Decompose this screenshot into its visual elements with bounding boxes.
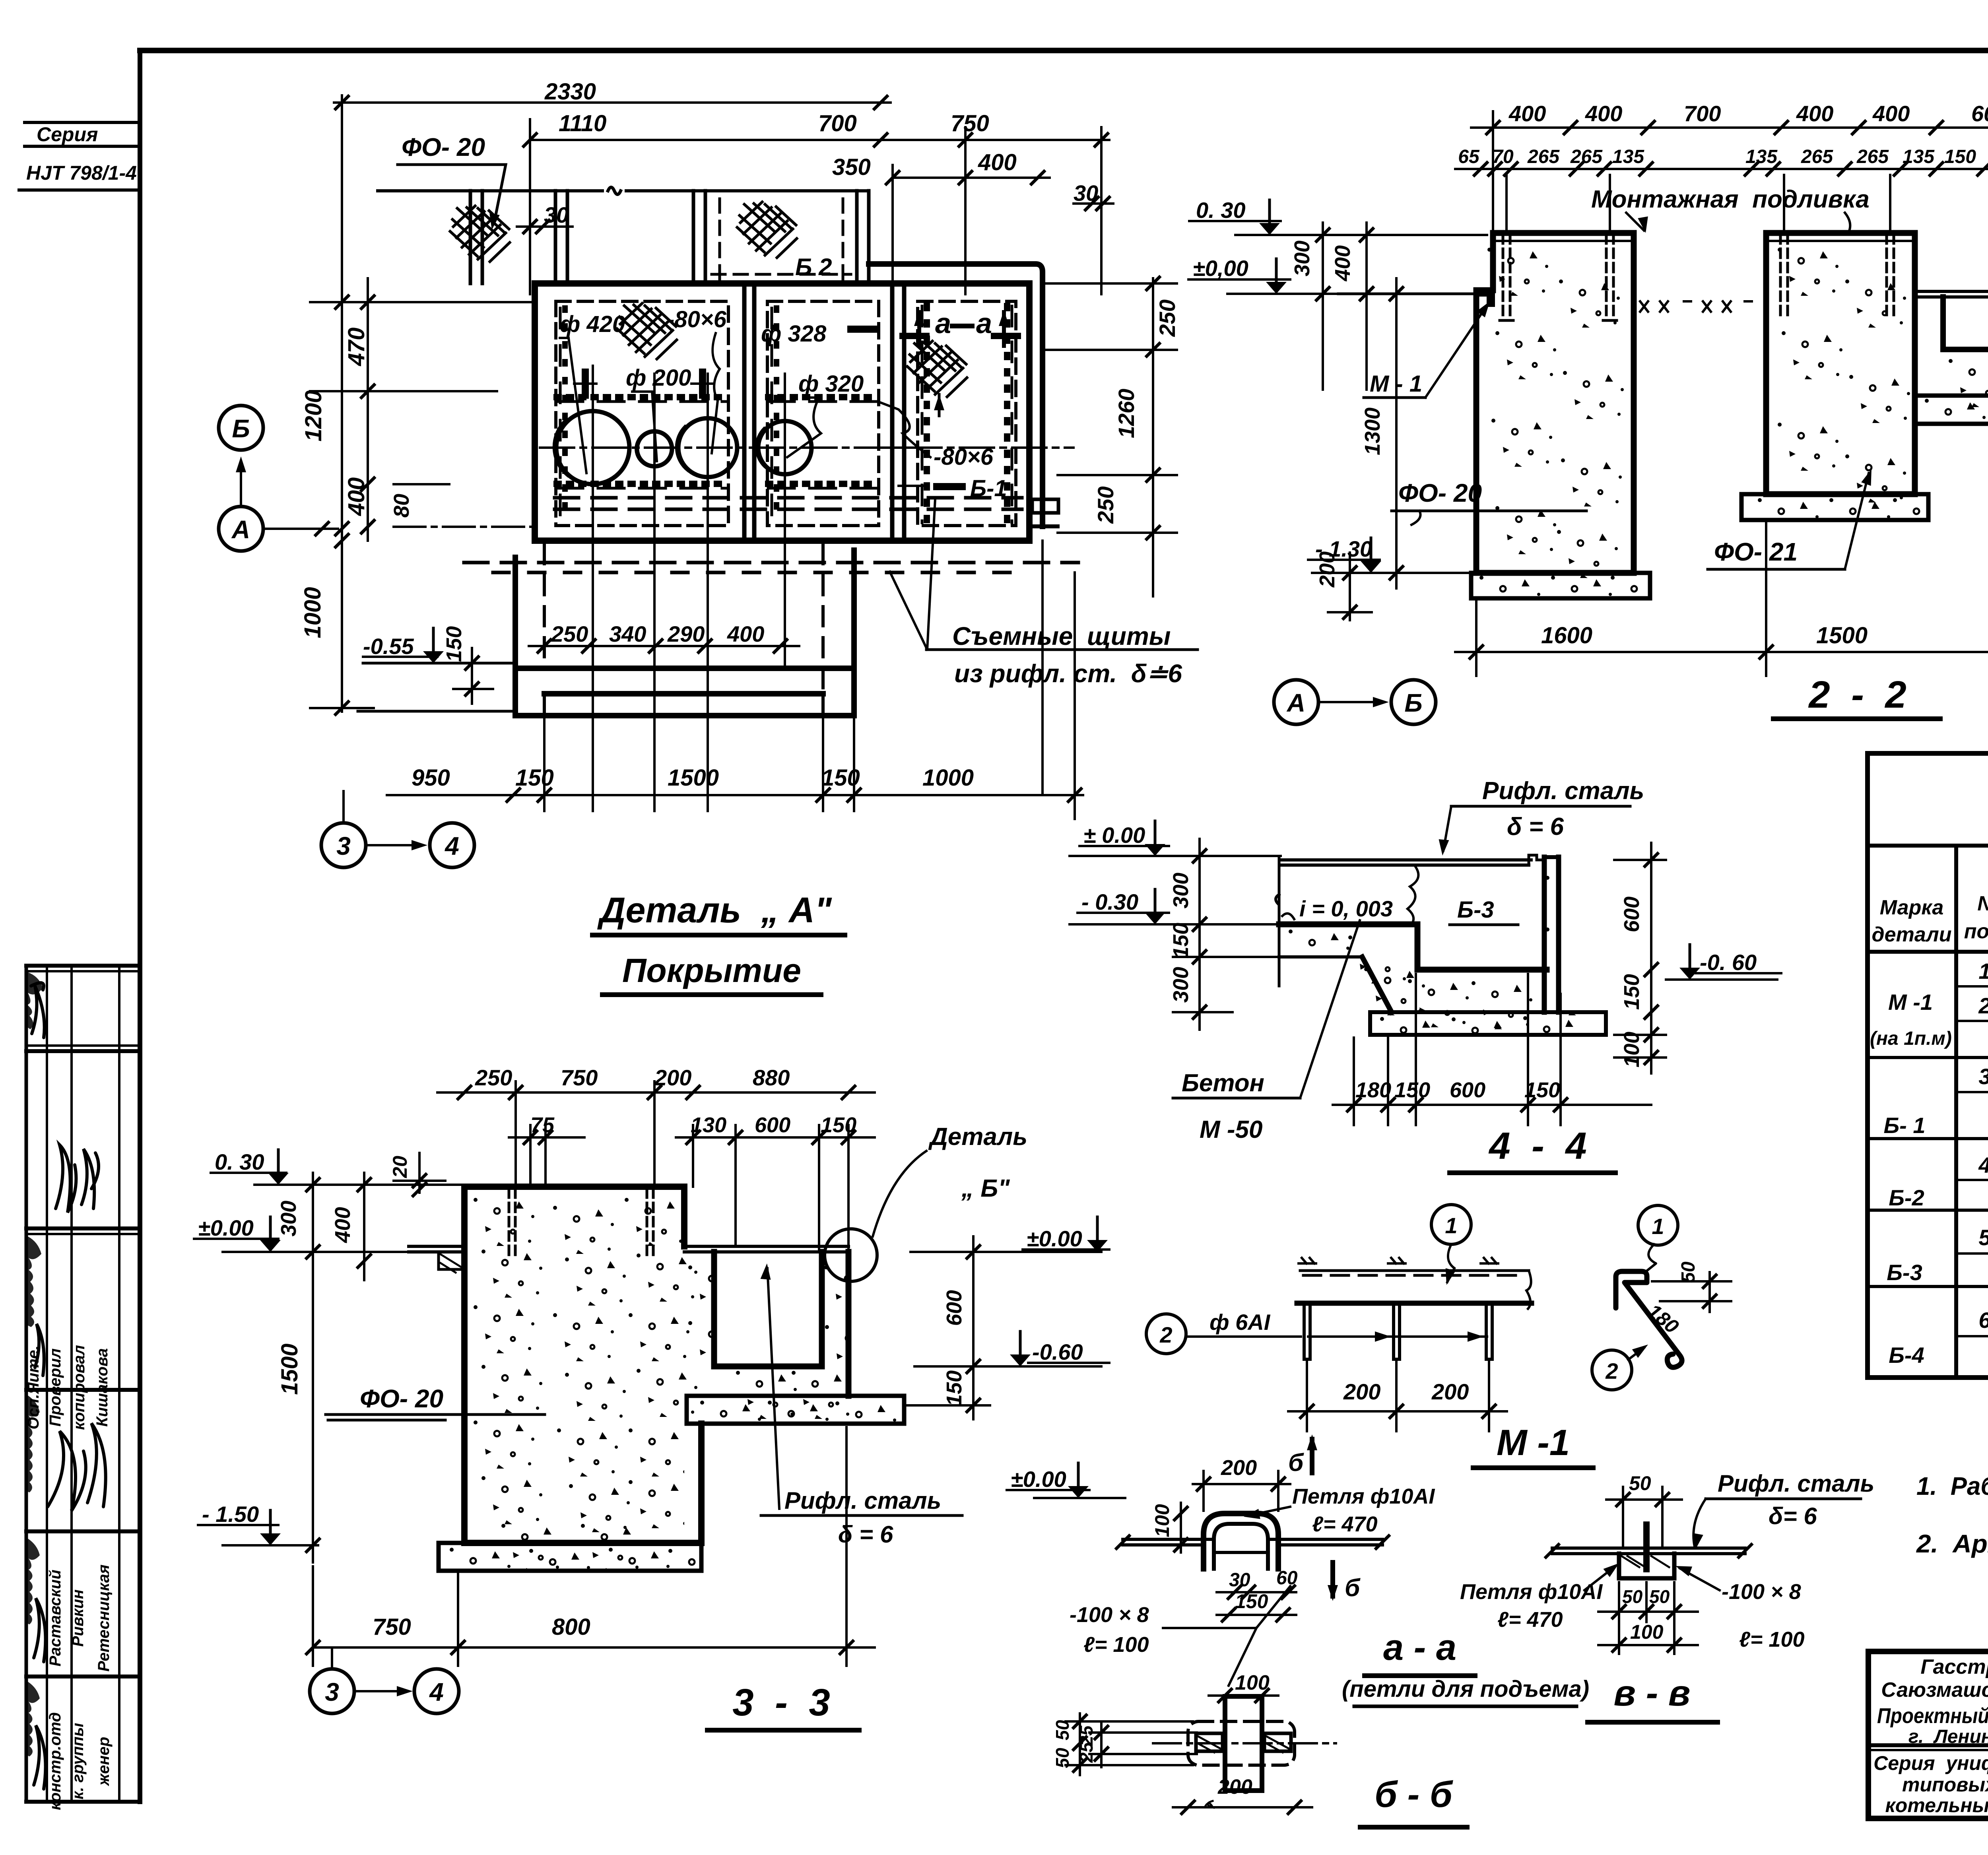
svg-text:1260: 1260	[1114, 389, 1139, 439]
svg-text:i = 0, 003: i = 0, 003	[1299, 896, 1393, 921]
svg-text:±0,00: ±0,00	[1193, 256, 1248, 281]
svg-text:НЈТ 798/1-4: НЈТ 798/1-4	[26, 162, 137, 184]
section cut dashed verticals	[544, 545, 823, 694]
svg-text:-100 × 8: -100 × 8	[1722, 1580, 1801, 1604]
svg-text:150: 150	[1524, 1078, 1560, 1102]
svg-text:женер: женер	[95, 1737, 113, 1787]
svg-text:880: 880	[753, 1065, 790, 1090]
svg-text:150: 150	[942, 1370, 966, 1406]
svg-text:150: 150	[821, 765, 860, 791]
2-2 left foundation anchor bolts	[1503, 235, 1613, 320]
svg-text:50: 50	[1629, 1472, 1651, 1494]
M-1 callout circle 1	[1431, 1205, 1471, 1286]
svg-text:Серия унифицированных: Серия унифицированных	[1873, 1752, 1988, 1774]
title 3-3	[707, 1681, 859, 1730]
4-4 left vertical chain 300 150 300	[1169, 839, 1279, 1030]
svg-text:200: 200	[1217, 1775, 1252, 1799]
svg-text:1600: 1600	[1541, 623, 1592, 648]
table header texts	[1872, 860, 1988, 949]
4-4 label Бетон М-50	[1173, 920, 1360, 1143]
svg-text:350: 350	[832, 154, 871, 180]
svg-text:из рифл. ст. δ≐6: из рифл. ст. δ≐6	[954, 659, 1182, 688]
svg-text:- 0.30: - 0.30	[1081, 889, 1138, 914]
svg-text:150: 150	[1944, 146, 1976, 167]
а-а labels	[1070, 1484, 1435, 1686]
svg-text:100: 100	[1630, 1621, 1664, 1643]
left vertical dims of plan	[300, 278, 535, 714]
4-4 right vertical chain 600 150 100	[1614, 843, 1666, 1073]
svg-text:2330: 2330	[544, 79, 596, 105]
svg-text:детали: детали	[1872, 923, 1952, 946]
svg-text:„ Б": „ Б"	[961, 1175, 1010, 1202]
svg-text:-80×6: -80×6	[667, 307, 727, 332]
svg-text:750: 750	[373, 1614, 411, 1640]
svg-text:6: 6	[1978, 1308, 1988, 1333]
ФО-20 label top	[398, 133, 506, 231]
svg-text:δ = 6: δ = 6	[1507, 813, 1564, 840]
svg-text:265: 265	[1570, 146, 1603, 167]
3-3 left chains 300 400 1500	[277, 1173, 371, 1562]
а-а section marks б	[1288, 1434, 1361, 1602]
svg-text:2: 2	[1159, 1322, 1172, 1347]
svg-text:±0.00: ±0.00	[198, 1215, 254, 1240]
svg-text:300: 300	[1290, 241, 1314, 276]
svg-text:700: 700	[1684, 101, 1721, 126]
3-3 dim row 75 130 600 150	[509, 1113, 875, 1252]
svg-text:Ривкин: Ривкин	[69, 1589, 87, 1647]
svg-text:± 0.00: ± 0.00	[1083, 823, 1145, 848]
svg-text:150: 150	[442, 626, 466, 662]
left duct walls	[470, 191, 567, 283]
svg-text:1500: 1500	[668, 765, 719, 791]
svg-text:200: 200	[1221, 1456, 1257, 1480]
svg-text:Б-3: Б-3	[1887, 1260, 1922, 1285]
svg-text:400: 400	[978, 149, 1017, 175]
svg-text:Б-2: Б-2	[1889, 1185, 1924, 1210]
svg-text:400: 400	[344, 477, 369, 516]
svg-text:а: а	[976, 308, 992, 340]
svg-text:а: а	[935, 308, 951, 340]
svg-text:250: 250	[1093, 486, 1118, 524]
svg-text:ф 200: ф 200	[626, 365, 691, 391]
svg-text:котельных с котлами: котельных с котлами	[1885, 1794, 1988, 1816]
svg-text:ф 320: ф 320	[798, 371, 864, 397]
3-3 Деталь Б callout	[825, 1123, 1027, 1281]
svg-text:М -1: М -1	[1497, 1422, 1570, 1463]
svg-text:б - б: б - б	[1375, 1774, 1453, 1815]
svg-text:1. Работать совместна с: 1. Работать совместна с листом КЖ-23	[1916, 1472, 1988, 1500]
svg-text:ф 328: ф 328	[761, 321, 827, 347]
svg-text:(петли для подъема): (петли для подъема)	[1342, 1676, 1589, 1702]
4-4 level ±0.00	[1070, 821, 1281, 856]
2-2 right foundation bolts	[1780, 235, 1894, 320]
2-2 left levels 0.30 and ±0.00	[1188, 198, 1487, 294]
table row lines	[1868, 986, 1988, 1336]
3-3 level -1.50	[198, 1502, 318, 1545]
DETAIL M-1 embedded plate	[1297, 1271, 1532, 1309]
sidebar rotated texts and signatures	[25, 1345, 113, 1810]
svg-text:1: 1	[1978, 959, 1988, 984]
4-4 level -0.30	[1070, 889, 1279, 924]
4-4 label Рифл. сталь	[1437, 777, 1644, 856]
svg-text:Бетон: Бетон	[1182, 1069, 1264, 1097]
svg-text:(на 1п.м): (на 1п.м)	[1870, 1028, 1952, 1049]
svg-text:600: 600	[755, 1113, 790, 1137]
svg-text:150: 150	[1394, 1078, 1430, 1102]
svg-text:290: 290	[667, 621, 705, 646]
svg-text:300: 300	[277, 1201, 301, 1236]
M-1 bent bar item	[1592, 1205, 1731, 1390]
svg-text:340: 340	[609, 621, 646, 646]
top duct walls	[693, 191, 869, 283]
svg-text:±0.00: ±0.00	[1011, 1467, 1066, 1492]
dim row 350 400	[832, 149, 1050, 294]
svg-text:3: 3	[1978, 1064, 1988, 1089]
svg-text:1500: 1500	[1816, 623, 1868, 648]
duct top line	[378, 187, 869, 194]
svg-text:ℓ= 470: ℓ= 470	[1497, 1608, 1563, 1632]
svg-text:-80×6: -80×6	[934, 444, 994, 470]
svg-text:- 1.30: - 1.30	[1315, 536, 1372, 561]
svg-text:Б-4: Б-4	[1889, 1343, 1924, 1368]
2-2 left vertical dims 300 400 1300 200	[1290, 223, 1403, 620]
svg-text:в - в: в - в	[1614, 1673, 1691, 1713]
svg-text:-0.60: -0.60	[1032, 1339, 1083, 1364]
svg-text:±0.00: ±0.00	[1027, 1226, 1082, 1251]
4-4 label Б-3	[1450, 897, 1518, 925]
dims 30	[517, 180, 1113, 233]
title 2-2	[1773, 673, 1940, 719]
SECTION 2-2 left foundation ФО-20	[1471, 233, 1650, 598]
svg-text:Ретесницкая: Ретесницкая	[95, 1564, 113, 1671]
svg-text:М -1: М -1	[1888, 990, 1933, 1015]
2-2 bottom dims 1600 1500	[1455, 424, 1988, 676]
svg-text:400: 400	[1585, 101, 1622, 126]
label Монтажная подливка	[1591, 186, 1870, 234]
svg-text:Рифл. сталь: Рифл. сталь	[1482, 777, 1644, 805]
svg-text:Деталь: Деталь	[928, 1123, 1027, 1151]
sidebar signature table	[26, 966, 140, 1802]
Съемные щиты label	[890, 499, 1198, 688]
svg-text:4: 4	[1978, 1153, 1988, 1178]
svg-text:ФО- 20: ФО- 20	[1398, 479, 1482, 507]
svg-text:Б: Б	[1404, 689, 1422, 717]
svg-text:5: 5	[1978, 1225, 1988, 1250]
svg-text:1200: 1200	[301, 390, 326, 441]
level -0.55	[363, 626, 493, 704]
svg-text:поз.: поз.	[1964, 920, 1988, 943]
svg-text:300: 300	[1169, 873, 1193, 908]
svg-text:Проверил: Проверил	[47, 1348, 64, 1426]
svg-text:250: 250	[475, 1065, 512, 1090]
svg-text:Рифл. сталь: Рифл. сталь	[1718, 1470, 1874, 1497]
2-2 soil hatch between foundations	[1640, 301, 1752, 312]
б-б dims	[1052, 1671, 1312, 1814]
svg-text:копировал: копировал	[70, 1345, 88, 1430]
4-4 level -0.60	[1666, 945, 1781, 980]
label М-1 left	[1364, 299, 1494, 398]
svg-text:50: 50	[1678, 1261, 1699, 1283]
svg-text:150: 150	[515, 765, 554, 791]
svg-text:3: 3	[336, 832, 351, 860]
plan anchor bolts	[582, 369, 706, 399]
2-2 left foundation speckle	[1479, 248, 1672, 624]
svg-text:100: 100	[1235, 1671, 1270, 1694]
DETAIL а-а level ±0.00	[1007, 1463, 1125, 1498]
svg-text:100: 100	[1620, 1032, 1644, 1067]
svg-text:Съемные щиты: Съемные щиты	[952, 622, 1171, 650]
dim row 1110 700 750	[524, 111, 1109, 294]
svg-text:200: 200	[1431, 1379, 1469, 1404]
svg-text:ФО- 20: ФО- 20	[360, 1384, 443, 1413]
svg-text:Покрытие: Покрытие	[622, 952, 801, 989]
svg-text:δ= 6: δ= 6	[1769, 1503, 1817, 1529]
3-3 foundation body	[409, 1187, 904, 1571]
svg-text:600: 600	[1450, 1078, 1485, 1102]
svg-text:50: 50	[1052, 1720, 1073, 1741]
svg-text:750: 750	[951, 111, 989, 136]
svg-text:1500: 1500	[277, 1343, 303, 1395]
label ФО-20 in 2-2	[1392, 479, 1586, 525]
svg-text:к. группы: к. группы	[69, 1723, 87, 1800]
3-3 right chain 600 150	[907, 1236, 990, 1419]
label ФО-21 in 2-2	[1708, 468, 1876, 569]
svg-text:150: 150	[1169, 923, 1193, 959]
svg-text:135: 135	[1745, 146, 1778, 167]
title б-б	[1360, 1774, 1467, 1827]
3-3 concrete speckle	[450, 1198, 896, 1597]
svg-text:950: 950	[412, 765, 450, 791]
svg-text:400: 400	[1872, 101, 1910, 126]
sidebar top series box	[19, 122, 140, 190]
svg-text:700: 700	[818, 111, 857, 136]
svg-text:N: N	[1977, 892, 1988, 915]
svg-text:Б-3: Б-3	[1457, 897, 1494, 923]
svg-text:600: 600	[1620, 896, 1644, 932]
svg-text:А: А	[231, 515, 250, 544]
svg-text:80: 80	[390, 494, 414, 518]
svg-text:0. 30: 0. 30	[215, 1149, 264, 1174]
DETAIL б-б plan of loop	[1153, 1696, 1336, 1791]
svg-text:3: 3	[325, 1678, 339, 1706]
svg-text:А: А	[1286, 689, 1305, 717]
dim row 950 150 1500 150 1000	[387, 541, 1083, 819]
svg-text:400: 400	[1796, 101, 1833, 126]
svg-text:-100 × 8: -100 × 8	[1070, 1603, 1149, 1627]
svg-text:б: б	[1345, 1574, 1361, 1602]
grid circles 3 and 4 below plan	[321, 791, 474, 867]
а-а loop (петля)	[1116, 1513, 1389, 1569]
svg-text:470: 470	[344, 328, 369, 367]
svg-text:300: 300	[1169, 967, 1193, 1003]
3-3 dim 20	[389, 1153, 445, 1196]
plan inner dashed liners	[556, 301, 1016, 526]
svg-text:-0. 60: -0. 60	[1700, 950, 1757, 975]
svg-text:б: б	[1288, 1449, 1304, 1477]
svg-text:ФО- 20: ФО- 20	[402, 133, 485, 161]
3-3 grid circles 3 4	[310, 1647, 459, 1713]
title Деталь А	[592, 891, 845, 995]
svg-text:800: 800	[552, 1614, 590, 1640]
svg-text:250: 250	[551, 621, 588, 646]
3-3 levels left 0.30 ±0.00	[194, 1149, 464, 1252]
svg-text:Б 2: Б 2	[795, 254, 832, 280]
plan view Деталь А outer walls	[535, 264, 1058, 541]
lower-left step structure	[358, 550, 854, 811]
svg-text:ФО- 21: ФО- 21	[1714, 537, 1798, 566]
svg-text:1: 1	[1652, 1214, 1664, 1239]
svg-text:ф 6АI: ф 6АI	[1209, 1310, 1271, 1335]
svg-text:Осп.Яите.: Осп.Яите.	[25, 1346, 42, 1430]
4-4 bottom dims 180 150 600 150	[1333, 974, 1651, 1125]
3-3 bottom dims 750 800	[307, 1427, 875, 1666]
svg-text:4 - 4: 4 - 4	[1488, 1125, 1586, 1167]
svg-text:400: 400	[1331, 245, 1355, 281]
svg-text:-0.55: -0.55	[363, 634, 414, 659]
title а-а	[1342, 1627, 1589, 1706]
SPECIFICATION TABLE frame	[1868, 753, 1988, 1378]
4-4 label i=0,003	[1282, 896, 1393, 921]
2-2 dim row 65 70 265 265 135 / 135 265 265 135 150 300 150	[1455, 146, 1988, 233]
svg-text:65: 65	[1458, 146, 1480, 167]
svg-text:Серия: Серия	[37, 123, 98, 146]
svg-text:150: 150	[1235, 1590, 1268, 1612]
svg-text:1000: 1000	[300, 587, 326, 638]
svg-text:0. 30: 0. 30	[1196, 198, 1246, 223]
svg-text:Кишакова: Кишакова	[93, 1348, 111, 1426]
4-4 concrete speckle	[1289, 876, 1606, 1065]
svg-text:265: 265	[1856, 146, 1889, 167]
title М-1	[1473, 1422, 1593, 1468]
3-3 right levels ±0.00 -0.60	[911, 1217, 1109, 1366]
SECTION 3-3 top dim row 250 750 200 880	[437, 1065, 875, 1187]
svg-text:Монтажная подливка: Монтажная подливка	[1591, 186, 1870, 213]
plan centerlines	[540, 366, 1074, 811]
svg-text:150: 150	[1620, 974, 1644, 1010]
svg-text:Проектный институт№1: Проектный институт№1	[1877, 1704, 1988, 1728]
svg-text:250: 250	[1155, 299, 1180, 337]
svg-text:4: 4	[429, 1678, 444, 1706]
svg-text:ℓ= 100: ℓ= 100	[1083, 1633, 1149, 1657]
svg-text:Гасстрой СССР: Гасстрой СССР	[1920, 1655, 1988, 1678]
svg-text:Б: Б	[232, 414, 250, 443]
svg-text:констр.отд: констр.отд	[47, 1712, 64, 1810]
svg-text:3 - 3: 3 - 3	[732, 1681, 830, 1724]
svg-text:Марка: Марка	[1880, 896, 1944, 919]
2-2 right foundation ФО-21	[1741, 233, 1988, 520]
a-a section marks in plan	[903, 308, 1018, 416]
svg-text:100: 100	[1151, 1504, 1173, 1537]
2-2 right foundation speckle	[1758, 248, 1988, 546]
svg-text:1: 1	[1445, 1213, 1457, 1238]
plan hatch tick rows	[557, 306, 1012, 523]
svg-text:1300: 1300	[1361, 407, 1384, 455]
hatch patches	[450, 206, 510, 262]
svg-text:- 1.50: - 1.50	[202, 1502, 259, 1527]
svg-text:70: 70	[1492, 146, 1514, 167]
title в-в	[1588, 1673, 1718, 1722]
M-1 callout circle 2 with ф 6АI	[1146, 1310, 1301, 1354]
M-1 stud spacing arrows	[1308, 1331, 1487, 1342]
TITLE BLOCK frame	[1868, 1651, 1988, 1818]
plan circles (openings)	[554, 411, 812, 484]
svg-text:400: 400	[331, 1207, 355, 1243]
3-3 anchor bolts	[509, 1189, 653, 1256]
svg-text:135: 135	[1612, 146, 1644, 167]
M-1 studs	[1299, 1258, 1498, 1359]
svg-text:Петля ф10АI: Петля ф10АI	[1292, 1484, 1435, 1508]
title 4-4	[1450, 1125, 1615, 1173]
grid circles Б and А	[219, 406, 338, 551]
title block left column texts	[1873, 1655, 1988, 1816]
dim row 250 340 290 400	[529, 621, 799, 652]
svg-text:265: 265	[1801, 146, 1833, 167]
2-2 level -1.30	[1308, 536, 1471, 573]
table data	[1870, 959, 1988, 1368]
svg-text:Рифл. сталь: Рифл. сталь	[784, 1487, 941, 1514]
sidebar signature scribbles	[31, 983, 106, 1789]
2-2 ground line left	[1338, 293, 1476, 295]
3-3 label Рифл. сталь	[761, 1263, 962, 1548]
2-2 top dim row 400 400 700 400 400 600	[1471, 101, 1988, 290]
svg-text:400: 400	[727, 621, 764, 646]
svg-text:20: 20	[389, 1156, 411, 1178]
dashed rows below plan (removable covers)	[464, 498, 1078, 572]
svg-text:1000: 1000	[922, 765, 974, 791]
svg-text:600: 600	[942, 1290, 966, 1326]
M-1 dims 200 200	[1288, 1362, 1507, 1431]
plan right side dims 250 1260 250	[1046, 277, 1180, 596]
svg-text:1110: 1110	[559, 111, 606, 136]
2-2 grid circles А Б	[1274, 680, 1436, 724]
svg-text:2: 2	[1605, 1358, 1618, 1383]
DETAIL в-в	[1546, 1521, 1751, 1578]
svg-text:750: 750	[561, 1065, 598, 1090]
svg-text:ℓ= 470: ℓ= 470	[1312, 1512, 1378, 1536]
svg-text:типовых проектов: типовых проектов	[1902, 1774, 1988, 1796]
svg-text:2. Армирование канала дана: 2. Армирование канала дана на листах КЖ-…	[1916, 1529, 1988, 1558]
label leaders in plan	[560, 329, 962, 487]
svg-text:а - а: а - а	[1383, 1627, 1456, 1668]
notes Примечания	[1916, 1417, 1988, 1558]
svg-text:600: 600	[1971, 101, 1988, 126]
plan internal labels	[560, 307, 1007, 501]
svg-text:ℓ= 100: ℓ= 100	[1739, 1628, 1805, 1651]
svg-text:Раставский: Раставский	[47, 1570, 64, 1667]
svg-text:М -50: М -50	[1200, 1116, 1262, 1143]
в-в dims and labels	[1460, 1470, 1874, 1654]
3-3 label ФО-20	[326, 1384, 545, 1420]
svg-text:ф 420: ф 420	[560, 311, 625, 337]
svg-text:265: 265	[1527, 146, 1560, 167]
а-а dims	[1151, 1456, 1298, 1621]
svg-text:4: 4	[444, 832, 459, 860]
svg-text:2: 2	[1978, 993, 1988, 1018]
SECTION 4-4 channel cross-section	[1276, 855, 1606, 1035]
svg-text:Деталь „ А": Деталь „ А"	[597, 891, 832, 930]
svg-text:г. Ленинград 1967г: г. Ленинград 1967г	[1908, 1726, 1988, 1747]
svg-text:Саюзмашстройпроект: Саюзмашстройпроект	[1881, 1678, 1988, 1702]
svg-text:200: 200	[1343, 1379, 1380, 1404]
dim 2330	[334, 79, 891, 712]
svg-text:Петля ф10АI: Петля ф10АI	[1460, 1580, 1603, 1604]
svg-text:Б- 1: Б- 1	[1884, 1113, 1926, 1138]
svg-text:2 - 2: 2 - 2	[1808, 673, 1906, 716]
svg-text:400: 400	[1508, 101, 1546, 126]
sidebar dark smudge artifacts	[27, 972, 43, 1756]
